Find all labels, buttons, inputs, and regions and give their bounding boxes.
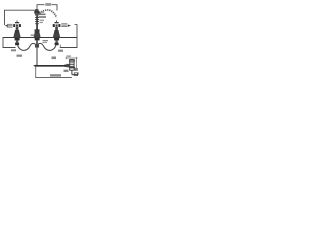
wire: right supply line and riser dimension [60, 24, 77, 47]
spout column [35, 9, 39, 11]
node J: flange-side text [31, 34, 35, 36]
trap top text [67, 55, 72, 57]
trap nut bands [69, 61, 75, 68]
node I: bottom dimension text [50, 74, 61, 76]
right valve: below-deck shank and nuts [54, 38, 59, 41]
node H: trap text label [64, 70, 69, 72]
right valve: handle [55, 20, 58, 22]
right hose [38, 43, 57, 50]
drain tailpiece [36, 48, 38, 66]
node E: left supply text labels [11, 49, 16, 51]
node D: tee label text [43, 40, 49, 41]
trap top dimension [66, 57, 77, 59]
wire: top-left height reference line [5, 10, 37, 25]
node F: right supply text label [58, 50, 63, 52]
waste arm [35, 65, 70, 67]
bottom dimension bracket [36, 67, 72, 78]
wire: dashed swing arc [40, 10, 57, 18]
left hose [18, 43, 37, 50]
wire: deck / counter line [3, 37, 77, 39]
node G: mid text above waste arm [52, 57, 57, 60]
trap side fitting [74, 68, 77, 71]
node A: left leader arrow with text [5, 25, 9, 27]
center tee [35, 44, 39, 48]
trap inlet connector [66, 64, 69, 67]
left valve: stem and bell [16, 27, 19, 30]
left valve: below-deck shank and nuts [15, 38, 20, 41]
node C: right leader arrow with text [61, 22, 67, 25]
spout below-deck shank [35, 38, 40, 41]
wire: left step down to supply line [3, 37, 16, 48]
left valve: handle [16, 20, 19, 22]
trap ribbed column [70, 60, 74, 71]
wire: top dimension line with text gap [37, 5, 57, 11]
trap tail and outlet [72, 70, 78, 74]
right valve: stem and bell [55, 27, 58, 30]
node B: spout dimension text [40, 12, 44, 13]
